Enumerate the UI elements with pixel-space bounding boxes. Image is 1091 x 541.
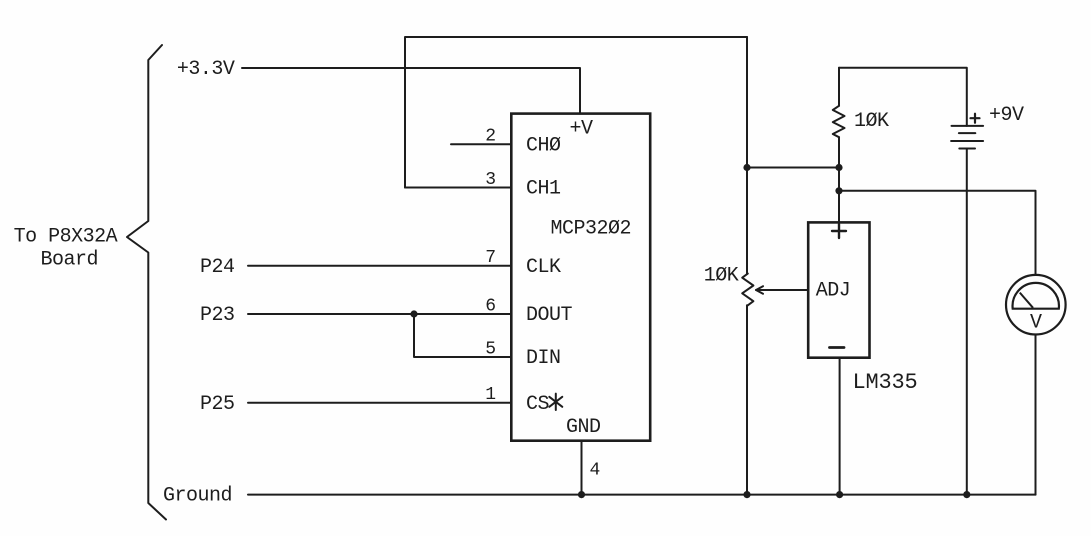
wire battery to ground <box>966 149 968 495</box>
potentiometer RP 10K zigzag <box>742 274 753 306</box>
svg-text:DOUT: DOUT <box>526 304 573 327</box>
wire GND pin 4 <box>581 441 583 495</box>
svg-text:CS: CS <box>526 393 550 416</box>
wire LM335 to ground <box>839 358 841 495</box>
wire P23 DOUT <box>248 313 511 315</box>
junction node B <box>835 187 842 194</box>
svg-text:+3.3V: +3.3V <box>177 58 235 81</box>
resistor R1 10K zigzag <box>833 106 845 137</box>
svg-text:To P8X32A: To P8X32A <box>14 226 118 249</box>
wire P25 CS <box>248 402 511 404</box>
brace To P8X32A Board <box>127 45 166 520</box>
junction ground pot <box>743 491 750 498</box>
svg-text:CLK: CLK <box>526 256 561 279</box>
wire DIN branch <box>414 314 511 357</box>
svg-text:P24: P24 <box>200 256 235 279</box>
battery BT1 plates <box>952 125 984 127</box>
sensor U2 LM335 box <box>808 222 869 357</box>
svg-text:MCP32Ø2: MCP32Ø2 <box>551 217 632 240</box>
wire wiper arrow <box>756 289 808 291</box>
svg-text:P23: P23 <box>200 304 235 327</box>
wire CH1 pin 3 <box>405 187 511 189</box>
wire voltmeter to ground <box>1035 335 1037 495</box>
wire ground bus <box>248 494 1036 496</box>
svg-text:5: 5 <box>485 340 496 360</box>
svg-text:7: 7 <box>485 248 496 268</box>
svg-text:1: 1 <box>485 385 496 405</box>
wire right vertical lower <box>746 305 748 494</box>
wire node B to voltmeter <box>839 191 1036 275</box>
junction ground battery <box>963 491 970 498</box>
svg-text:3: 3 <box>485 170 496 190</box>
junction node A left <box>743 164 750 171</box>
junction node A right <box>835 164 842 171</box>
wire resistor top <box>838 68 840 106</box>
voltmeter M1 <box>1006 275 1066 335</box>
svg-text:1ØK: 1ØK <box>704 265 739 288</box>
svg-text:Ground: Ground <box>163 485 232 508</box>
plus sign battery <box>971 114 980 123</box>
wire CH0 pin 2 stub <box>451 143 511 145</box>
svg-text:4: 4 <box>590 461 601 481</box>
wire node A to resistor <box>747 167 839 169</box>
wire resistor bottom to LM335 <box>838 137 840 222</box>
wire P24 CLK <box>248 265 511 267</box>
wire top bus <box>405 37 747 188</box>
svg-text:ADJ: ADJ <box>816 279 851 302</box>
svg-text:DIN: DIN <box>526 347 561 370</box>
junction ground pin4 <box>578 491 585 498</box>
wire top to battery <box>839 68 967 126</box>
junction ground LM335 <box>836 491 843 498</box>
svg-text:Board: Board <box>41 249 99 272</box>
wire right vertical upper <box>746 37 748 274</box>
plus sign LM335 <box>830 114 980 348</box>
asterisk star CS <box>549 394 562 410</box>
svg-text:CH1: CH1 <box>526 178 561 201</box>
svg-text:1ØK: 1ØK <box>854 110 889 133</box>
wire +3.3V to +V <box>242 68 580 114</box>
svg-text:V: V <box>1030 311 1042 334</box>
minus sign LM335 <box>830 346 845 349</box>
svg-text:GND: GND <box>566 416 601 439</box>
junction DOUT/DIN <box>410 310 417 317</box>
svg-text:+9V: +9V <box>989 104 1024 127</box>
op IC U1 MCP3202 box <box>511 114 650 441</box>
svg-text:LM335: LM335 <box>853 370 918 395</box>
svg-text:+V: +V <box>570 118 594 141</box>
svg-text:6: 6 <box>485 297 496 317</box>
svg-text:2: 2 <box>485 127 496 147</box>
svg-text:P25: P25 <box>200 393 235 416</box>
svg-text:CHØ: CHØ <box>526 134 561 157</box>
